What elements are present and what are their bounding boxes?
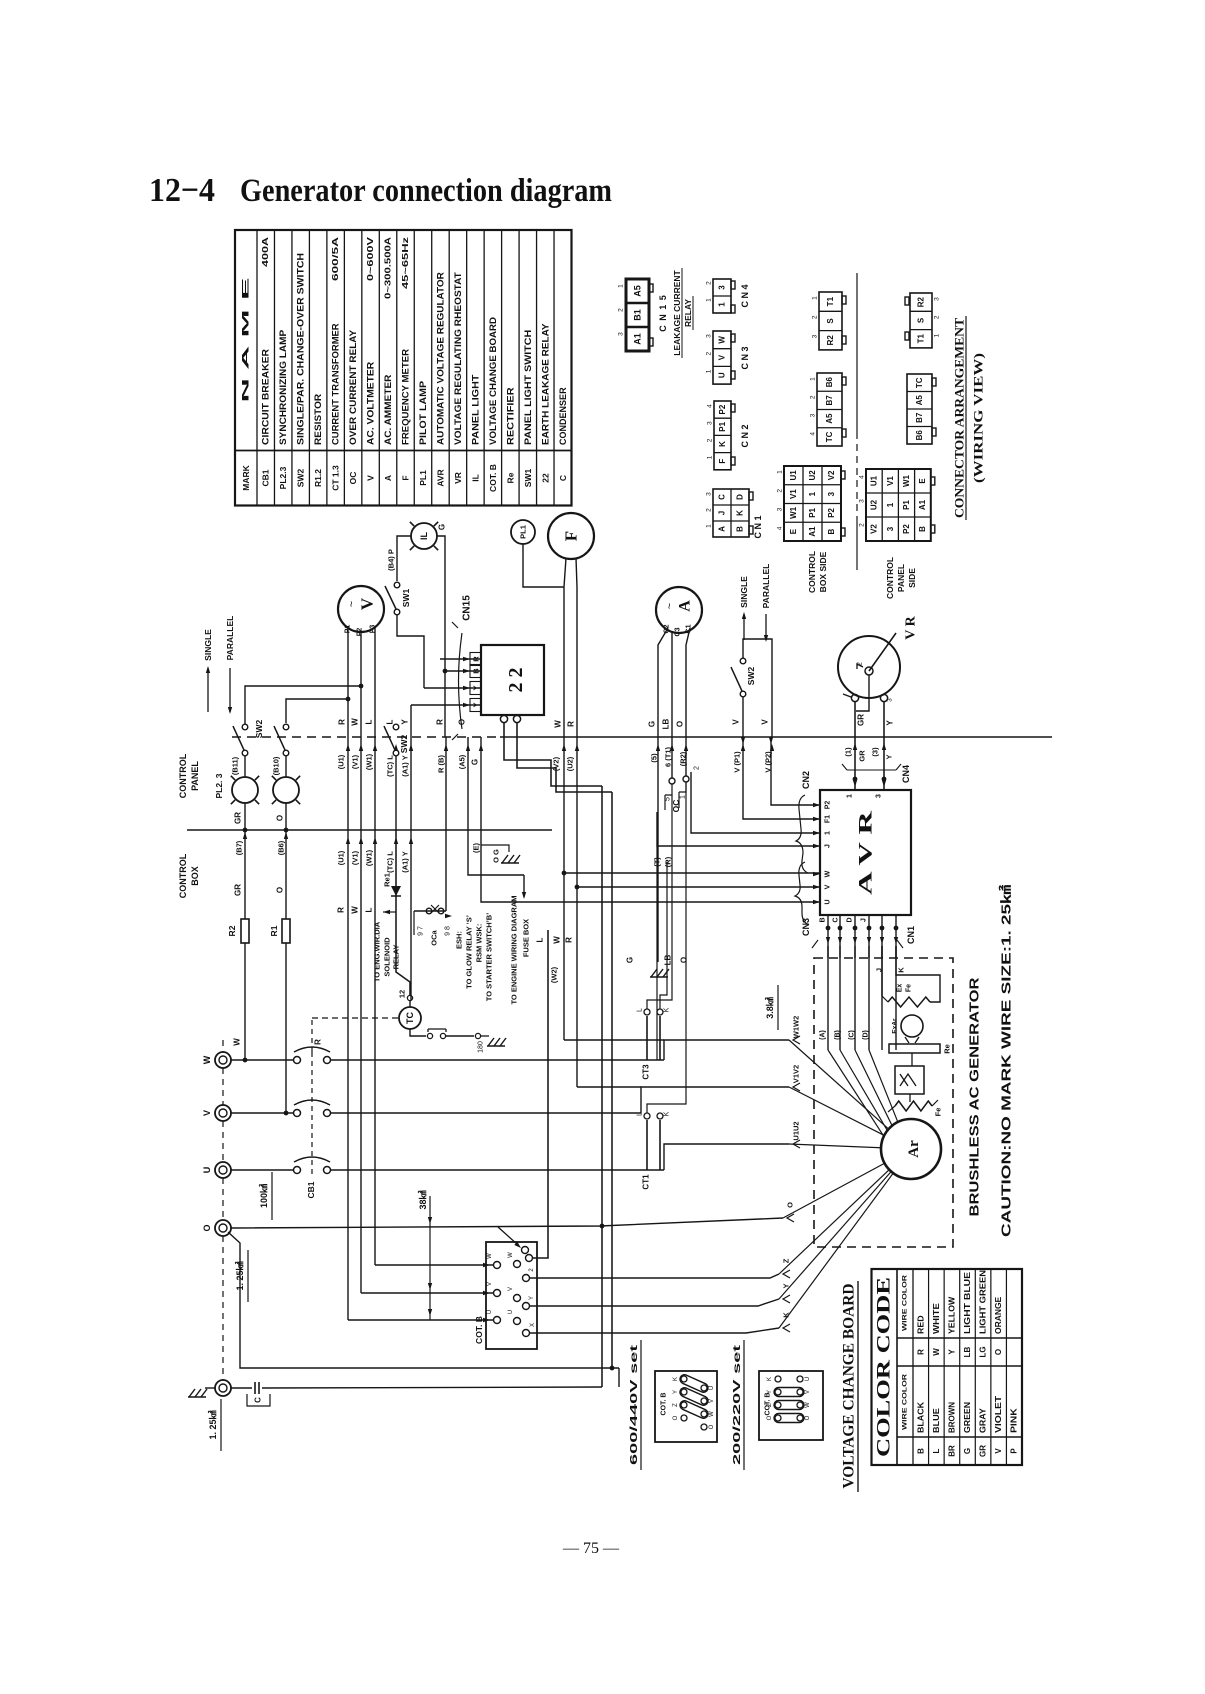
- svg-text:VOLTAGE REGULATING RHEOSTAT: VOLTAGE REGULATING RHEOSTAT: [453, 272, 463, 445]
- svg-text:V (P1): V (P1): [733, 751, 742, 773]
- svg-text:B6: B6: [825, 376, 834, 387]
- svg-text:A V R: A V R: [856, 811, 877, 895]
- svg-text:2: 2: [777, 489, 784, 493]
- svg-text:2: 2: [857, 662, 864, 666]
- svg-text:Generator connection diagram: Generator connection diagram: [240, 173, 612, 209]
- svg-text:B: B: [916, 1448, 925, 1454]
- svg-text:WIRE COLOR: WIRE COLOR: [902, 1374, 909, 1430]
- svg-text:U: U: [508, 1310, 514, 1314]
- svg-text:9 7: 9 7: [418, 926, 425, 936]
- svg-text:AVR: AVR: [435, 469, 445, 486]
- svg-text:GREEN: GREEN: [963, 1402, 972, 1433]
- svg-text:PINK: PINK: [1010, 1408, 1019, 1433]
- svg-text:CONTROL: CONTROL: [178, 753, 188, 798]
- svg-text:G: G: [438, 524, 447, 530]
- svg-text:CT3: CT3: [642, 1064, 651, 1080]
- svg-text:38㎢: 38㎢: [417, 1190, 428, 1209]
- svg-text:V1: V1: [789, 489, 798, 499]
- svg-text:C N 3: C N 3: [740, 346, 750, 369]
- svg-text:YELLOW: YELLOW: [947, 1296, 956, 1334]
- svg-text:R1.2: R1.2: [313, 469, 323, 487]
- svg-text:SW2: SW2: [254, 720, 264, 739]
- svg-text:J: J: [718, 511, 727, 515]
- svg-text:BLUE: BLUE: [932, 1407, 941, 1433]
- svg-text:SOLENOID: SOLENOID: [383, 937, 392, 977]
- svg-text:SINGLE/PAR. CHANGE-OVER SWITCH: SINGLE/PAR. CHANGE-OVER SWITCH: [296, 253, 306, 445]
- svg-text:CONTROL: CONTROL: [178, 853, 188, 898]
- svg-text:PL2. 3: PL2. 3: [214, 773, 224, 798]
- svg-text:COT. B: COT. B: [488, 464, 498, 492]
- svg-text:RECTIFIER: RECTIFIER: [505, 387, 515, 445]
- svg-text:COT. B: COT. B: [661, 1393, 668, 1416]
- svg-text:K: K: [782, 1312, 791, 1318]
- svg-text:R1: R1: [269, 925, 279, 936]
- svg-text:K: K: [718, 441, 727, 447]
- svg-text:W: W: [554, 720, 563, 728]
- svg-text:P1: P1: [902, 500, 911, 510]
- svg-text:PARALLEL: PARALLEL: [761, 564, 771, 609]
- svg-text:U1U2: U1U2: [792, 1121, 801, 1140]
- svg-text:V2: V2: [870, 524, 879, 534]
- svg-text:U: U: [202, 1167, 212, 1174]
- svg-text:X: X: [530, 1323, 536, 1327]
- svg-text:V: V: [761, 719, 770, 725]
- svg-text:O: O: [276, 815, 285, 821]
- svg-text:CONNECTOR ARRANGEMENT: CONNECTOR ARRANGEMENT: [952, 318, 967, 518]
- svg-text:U2: U2: [808, 470, 817, 481]
- svg-text:O: O: [676, 721, 685, 727]
- svg-text:Y: Y: [947, 1349, 956, 1355]
- svg-text:B: B: [827, 529, 836, 535]
- svg-text:VOLTAGE CHANGE BOARD: VOLTAGE CHANGE BOARD: [488, 316, 498, 445]
- svg-text:L: L: [932, 1448, 941, 1453]
- svg-text:GR: GR: [858, 750, 867, 762]
- svg-text:C N 4: C N 4: [740, 284, 750, 307]
- svg-text:BOX SIDE: BOX SIDE: [818, 551, 828, 592]
- svg-text:600/5A: 600/5A: [331, 237, 340, 281]
- svg-text:CIRCUIT BREAKER: CIRCUIT BREAKER: [261, 348, 271, 445]
- svg-text:(TC) L: (TC) L: [386, 755, 395, 777]
- svg-text:3: 3: [886, 526, 895, 531]
- svg-text:2: 2: [706, 352, 713, 356]
- svg-text:A: A: [383, 475, 393, 481]
- svg-text:(W1): (W1): [365, 849, 374, 866]
- svg-text:W: W: [202, 1055, 212, 1064]
- svg-text:FUSE BOX: FUSE BOX: [522, 919, 531, 957]
- svg-text:V: V: [202, 1110, 212, 1116]
- svg-text:(V1): (V1): [351, 850, 360, 865]
- svg-text:R: R: [337, 907, 346, 913]
- svg-text:Re: Re: [943, 1044, 952, 1054]
- svg-text:R2: R2: [826, 335, 835, 346]
- svg-text:P2: P2: [825, 801, 832, 810]
- svg-text:C N 1: C N 1: [753, 515, 763, 538]
- svg-text:Z: Z: [767, 1403, 773, 1407]
- svg-text:T1: T1: [826, 296, 835, 306]
- svg-text:C N 1 5: C N 1 5: [658, 294, 668, 332]
- svg-text:PL1: PL1: [519, 525, 528, 539]
- svg-text:CN2: CN2: [801, 771, 811, 789]
- svg-text:PARALLEL: PARALLEL: [225, 616, 235, 661]
- svg-text:W: W: [709, 1411, 715, 1417]
- svg-text:1: 1: [618, 284, 625, 288]
- svg-text:V: V: [366, 475, 376, 481]
- svg-text:LEAKAGE CURRENT: LEAKAGE CURRENT: [672, 269, 682, 355]
- svg-text:A: A: [677, 600, 694, 612]
- svg-text:(W1): (W1): [365, 753, 374, 770]
- svg-text:IL: IL: [419, 531, 429, 540]
- svg-text:G: G: [471, 759, 480, 765]
- svg-text:CAUTION:NO MARK WIRE SIZE:1. 2: CAUTION:NO MARK WIRE SIZE:1. 25㎢: [999, 885, 1014, 1237]
- svg-text:O G: O G: [492, 849, 501, 863]
- svg-text:V: V: [487, 1282, 493, 1286]
- svg-text:ExAr: ExAr: [892, 1018, 899, 1034]
- svg-text:2: 2: [812, 315, 819, 319]
- svg-text:TC: TC: [915, 377, 924, 388]
- svg-text:R: R: [436, 719, 445, 725]
- svg-text:J: J: [861, 918, 868, 922]
- svg-text:2: 2: [694, 766, 701, 770]
- svg-text:(TC) L: (TC) L: [386, 851, 395, 873]
- svg-text:PANEL LIGHT: PANEL LIGHT: [470, 374, 480, 445]
- svg-text:R: R: [916, 1349, 925, 1355]
- svg-text:RSM WSK:: RSM WSK:: [475, 924, 484, 963]
- svg-text:U1: U1: [789, 470, 798, 481]
- svg-text:B7: B7: [915, 412, 924, 423]
- svg-text:P1: P1: [718, 421, 727, 431]
- svg-text:B1: B1: [633, 309, 643, 321]
- svg-text:Y: Y: [885, 754, 894, 759]
- svg-text:W: W: [351, 906, 360, 914]
- svg-text:2: 2: [707, 438, 714, 442]
- svg-text:2: 2: [618, 308, 625, 312]
- svg-text:CN3: CN3: [801, 918, 811, 936]
- svg-text:(1): (1): [844, 747, 853, 757]
- svg-text:OC: OC: [348, 472, 358, 485]
- svg-text:Re: Re: [505, 472, 515, 483]
- svg-text:K: K: [664, 1007, 671, 1012]
- svg-text:AC. VOLTMETER: AC. VOLTMETER: [366, 361, 376, 445]
- svg-text:F: F: [562, 531, 581, 541]
- svg-text:V R: V R: [904, 615, 919, 639]
- svg-text:2: 2: [529, 1268, 535, 1272]
- svg-text:LB: LB: [963, 1346, 972, 1357]
- svg-text:(B10): (B10): [272, 756, 281, 775]
- svg-text:1: 1: [707, 455, 714, 459]
- svg-text:V: V: [825, 884, 832, 889]
- svg-text:V: V: [709, 1399, 715, 1403]
- svg-text:(B4) P: (B4) P: [387, 549, 396, 571]
- svg-text:TO ENG.WIR.DIA: TO ENG.WIR.DIA: [373, 921, 382, 982]
- svg-text:AUTOMATIC VOLTAGE REGULATOR: AUTOMATIC VOLTAGE REGULATOR: [435, 272, 445, 445]
- svg-text:(U2): (U2): [566, 756, 575, 771]
- svg-text:(D): (D): [863, 1030, 870, 1040]
- svg-text:O: O: [805, 1415, 811, 1420]
- svg-text:Z: Z: [673, 1403, 679, 1407]
- svg-text:1: 1: [934, 333, 941, 337]
- svg-text:LIGHT GREEN: LIGHT GREEN: [979, 1270, 988, 1334]
- svg-text:CB1: CB1: [261, 469, 271, 486]
- svg-text:B: B: [736, 526, 745, 532]
- svg-text:180: 180: [478, 1041, 485, 1053]
- svg-text:GRAY: GRAY: [979, 1407, 988, 1433]
- svg-text:U: U: [718, 372, 727, 378]
- svg-text:R: R: [338, 719, 347, 725]
- svg-text:Ar: Ar: [906, 1140, 922, 1158]
- svg-text:P2: P2: [357, 628, 364, 637]
- svg-text:1: 1: [847, 794, 854, 798]
- svg-text:400A: 400A: [261, 237, 270, 267]
- svg-text:O: O: [709, 1424, 715, 1429]
- svg-text:W1: W1: [789, 506, 798, 519]
- svg-text:Y: Y: [767, 1390, 773, 1394]
- svg-text:CN4: CN4: [901, 765, 911, 783]
- svg-text:1: 1: [812, 296, 819, 300]
- svg-text:W: W: [805, 1402, 811, 1408]
- svg-text:W: W: [932, 1348, 941, 1356]
- svg-text:B: B: [918, 526, 927, 532]
- svg-text:1. 25㎢: 1. 25㎢: [207, 1410, 218, 1439]
- svg-text:OCa: OCa: [430, 929, 439, 945]
- svg-text:Fe: Fe: [906, 984, 913, 992]
- svg-text:MARK: MARK: [241, 464, 251, 490]
- svg-text:GR: GR: [979, 1445, 988, 1457]
- svg-text:WIRE COLOR: WIRE COLOR: [902, 1275, 909, 1331]
- svg-text:AC. AMMETER: AC. AMMETER: [383, 374, 393, 445]
- svg-text:PL2.3: PL2.3: [278, 466, 288, 489]
- svg-text:(U1): (U1): [337, 850, 346, 865]
- svg-text:R2: R2: [227, 925, 237, 936]
- svg-text:K: K: [897, 967, 906, 973]
- svg-text:2: 2: [706, 508, 713, 512]
- svg-text:1: 1: [706, 369, 713, 373]
- svg-text:U: U: [487, 1310, 493, 1314]
- svg-text:3: 3: [707, 421, 714, 425]
- svg-text:C3: C3: [675, 627, 682, 636]
- svg-text:2 2: 2 2: [505, 668, 527, 693]
- svg-text:O: O: [276, 887, 285, 893]
- svg-text:BLACK: BLACK: [916, 1402, 925, 1433]
- svg-text:TC: TC: [405, 1012, 415, 1024]
- svg-text:V: V: [994, 1448, 1003, 1454]
- svg-text:B: B: [820, 917, 827, 922]
- svg-text:1: 1: [808, 491, 817, 496]
- svg-text:C: C: [558, 475, 568, 481]
- svg-text:BR: BR: [947, 1445, 956, 1457]
- svg-text:GR: GR: [234, 812, 243, 824]
- svg-text:0~600V: 0~600V: [366, 236, 375, 281]
- svg-text:Re1: Re1: [383, 873, 392, 887]
- svg-text:3: 3: [934, 297, 941, 301]
- svg-text:CONTROL: CONTROL: [807, 551, 817, 593]
- svg-text:PANEL LIGHT SWITCH: PANEL LIGHT SWITCH: [523, 330, 533, 445]
- svg-text:PILOT LAMP: PILOT LAMP: [418, 381, 428, 445]
- svg-text:VR: VR: [453, 472, 463, 484]
- svg-text:P2: P2: [902, 524, 911, 534]
- svg-text:1: 1: [825, 831, 832, 835]
- svg-text:A5: A5: [825, 413, 834, 424]
- svg-text:A1: A1: [918, 499, 927, 510]
- svg-text:F1: F1: [825, 815, 832, 823]
- svg-text:C: C: [833, 917, 840, 922]
- svg-text:VOLTAGE CHANGE BOARD: VOLTAGE CHANGE BOARD: [841, 1284, 858, 1489]
- svg-text:1: 1: [777, 470, 784, 474]
- svg-text:2: 2: [810, 395, 817, 399]
- svg-text:N A M E: N A M E: [241, 278, 252, 403]
- svg-text:SW1: SW1: [401, 589, 411, 608]
- svg-text:SINGLE: SINGLE: [739, 576, 749, 608]
- svg-text:3: 3: [810, 413, 817, 417]
- svg-text:CONDENSER: CONDENSER: [558, 387, 568, 445]
- svg-text:22: 22: [540, 473, 550, 483]
- svg-text:VIOLET: VIOLET: [994, 1396, 1003, 1433]
- svg-text:(A): (A): [820, 1030, 827, 1040]
- svg-text:W: W: [351, 718, 360, 726]
- svg-text:4: 4: [810, 432, 817, 436]
- svg-text:LB: LB: [662, 718, 671, 729]
- svg-text:Y: Y: [529, 1296, 535, 1300]
- svg-text:(V1): (V1): [351, 754, 360, 769]
- svg-text:CT1: CT1: [642, 1174, 651, 1190]
- svg-text:CN1: CN1: [906, 926, 916, 944]
- svg-text:(B11): (B11): [231, 756, 240, 775]
- svg-text:S: S: [917, 317, 926, 323]
- svg-text:S: S: [826, 318, 835, 324]
- svg-text:Ex: Ex: [897, 984, 904, 993]
- svg-text:3: 3: [706, 334, 713, 338]
- svg-text:U: U: [805, 1377, 811, 1381]
- svg-text:BROWN: BROWN: [947, 1402, 956, 1433]
- svg-text:O: O: [458, 719, 467, 725]
- svg-text:IL: IL: [470, 474, 480, 482]
- svg-text:SYNCHRONIZING LAMP: SYNCHRONIZING LAMP: [278, 330, 288, 445]
- svg-text:O: O: [202, 1224, 212, 1231]
- svg-text:V: V: [358, 597, 377, 610]
- svg-text:2: 2: [934, 315, 941, 319]
- svg-text:12−4: 12−4: [149, 172, 215, 209]
- svg-text:W: W: [487, 1253, 493, 1259]
- svg-text:Fe: Fe: [934, 1108, 943, 1117]
- svg-text:~: ~: [346, 601, 358, 607]
- svg-text:(E): (E): [472, 843, 481, 854]
- svg-text:K: K: [767, 1377, 773, 1381]
- svg-text:A5: A5: [633, 285, 643, 297]
- svg-text:0~300.500A: 0~300.500A: [384, 237, 393, 299]
- svg-text:1: 1: [886, 502, 895, 507]
- svg-text:L: L: [637, 1008, 644, 1012]
- svg-text:EARTH LEAKAGE RELAY: EARTH LEAKAGE RELAY: [540, 323, 550, 445]
- svg-text:A1: A1: [808, 526, 817, 537]
- svg-text:E: E: [789, 528, 798, 534]
- svg-text:U: U: [825, 899, 832, 904]
- svg-text:W: W: [508, 1252, 514, 1258]
- svg-text:R: R: [567, 721, 576, 727]
- svg-text:SIDE: SIDE: [907, 568, 917, 588]
- svg-text:G: G: [626, 957, 635, 963]
- svg-text:U1: U1: [870, 475, 879, 486]
- svg-text:600/440V set: 600/440V set: [628, 1344, 640, 1465]
- svg-text:R: R: [565, 937, 574, 943]
- svg-text:Y: Y: [886, 720, 895, 726]
- svg-text:(B6): (B6): [277, 840, 286, 855]
- svg-text:T1: T1: [917, 334, 926, 344]
- svg-text:FREQUENCY METER: FREQUENCY METER: [401, 348, 411, 445]
- svg-text:V: V: [508, 1287, 514, 1291]
- svg-text:SW1: SW1: [523, 469, 533, 488]
- svg-text:W1W2: W1W2: [792, 1016, 801, 1039]
- svg-text:V2: V2: [827, 470, 836, 480]
- svg-text:C: C: [254, 1397, 263, 1403]
- svg-text:3: 3: [876, 794, 883, 798]
- svg-text:B7: B7: [825, 395, 834, 406]
- svg-text:SW2: SW2: [399, 735, 409, 754]
- svg-text:100㎢: 100㎢: [258, 1184, 269, 1208]
- svg-text:45~65Hz: 45~65Hz: [401, 237, 410, 289]
- svg-text:RESISTOR: RESISTOR: [313, 393, 323, 445]
- svg-text:TC: TC: [825, 431, 834, 442]
- svg-text:3: 3: [777, 507, 784, 511]
- svg-text:PL1: PL1: [418, 470, 428, 486]
- svg-text:O: O: [786, 1202, 795, 1208]
- svg-text:L: L: [365, 907, 374, 912]
- svg-text:R2: R2: [917, 296, 926, 307]
- svg-text:CN15: CN15: [462, 595, 473, 621]
- svg-text:(A1) Y: (A1) Y: [401, 851, 410, 873]
- svg-text:W: W: [233, 1038, 242, 1046]
- svg-text:J: J: [825, 844, 832, 848]
- svg-text:3: 3: [859, 499, 866, 503]
- svg-text:COLOR CODE: COLOR CODE: [874, 1277, 895, 1457]
- svg-text:L: L: [365, 719, 374, 724]
- svg-text:A: A: [718, 526, 727, 532]
- svg-text:RED: RED: [916, 1315, 925, 1334]
- svg-text:3.8㎢: 3.8㎢: [764, 997, 775, 1019]
- svg-text:P2: P2: [827, 507, 836, 517]
- svg-text:CT 1.3: CT 1.3: [331, 465, 341, 491]
- svg-text:ESH:: ESH:: [455, 931, 464, 949]
- svg-text:Y: Y: [782, 1283, 791, 1288]
- svg-text:1: 1: [718, 302, 727, 307]
- svg-text:(A1) Y: (A1) Y: [401, 755, 410, 777]
- svg-text:P: P: [1010, 1448, 1019, 1454]
- svg-text:GR: GR: [234, 884, 243, 896]
- svg-text:K: K: [736, 510, 745, 516]
- svg-text:WHITE: WHITE: [932, 1302, 941, 1334]
- svg-text:1: 1: [706, 298, 713, 302]
- svg-text:BOX: BOX: [190, 866, 200, 886]
- svg-text:L: L: [637, 1112, 644, 1116]
- svg-text:V: V: [805, 1390, 811, 1394]
- svg-text:G: G: [963, 1448, 972, 1454]
- svg-text:R (B): R (B): [437, 755, 446, 773]
- svg-text:1: 1: [706, 524, 713, 528]
- svg-text:P2: P2: [718, 404, 727, 414]
- svg-text:O: O: [680, 957, 689, 963]
- svg-text:P1: P1: [808, 507, 817, 517]
- svg-text:Y: Y: [401, 719, 410, 725]
- svg-text:U: U: [709, 1386, 715, 1390]
- svg-text:RELAY: RELAY: [683, 299, 693, 327]
- svg-text:C N 2: C N 2: [740, 424, 750, 447]
- svg-text:LB: LB: [664, 954, 673, 965]
- svg-text:1. 25㎢: 1. 25㎢: [234, 1261, 245, 1290]
- svg-text:3: 3: [618, 332, 625, 336]
- svg-text:G: G: [648, 721, 657, 727]
- svg-text:O: O: [767, 1415, 773, 1420]
- svg-text:(3): (3): [871, 747, 880, 757]
- svg-text:ORANGE: ORANGE: [994, 1296, 1003, 1334]
- svg-text:PANEL: PANEL: [190, 761, 200, 791]
